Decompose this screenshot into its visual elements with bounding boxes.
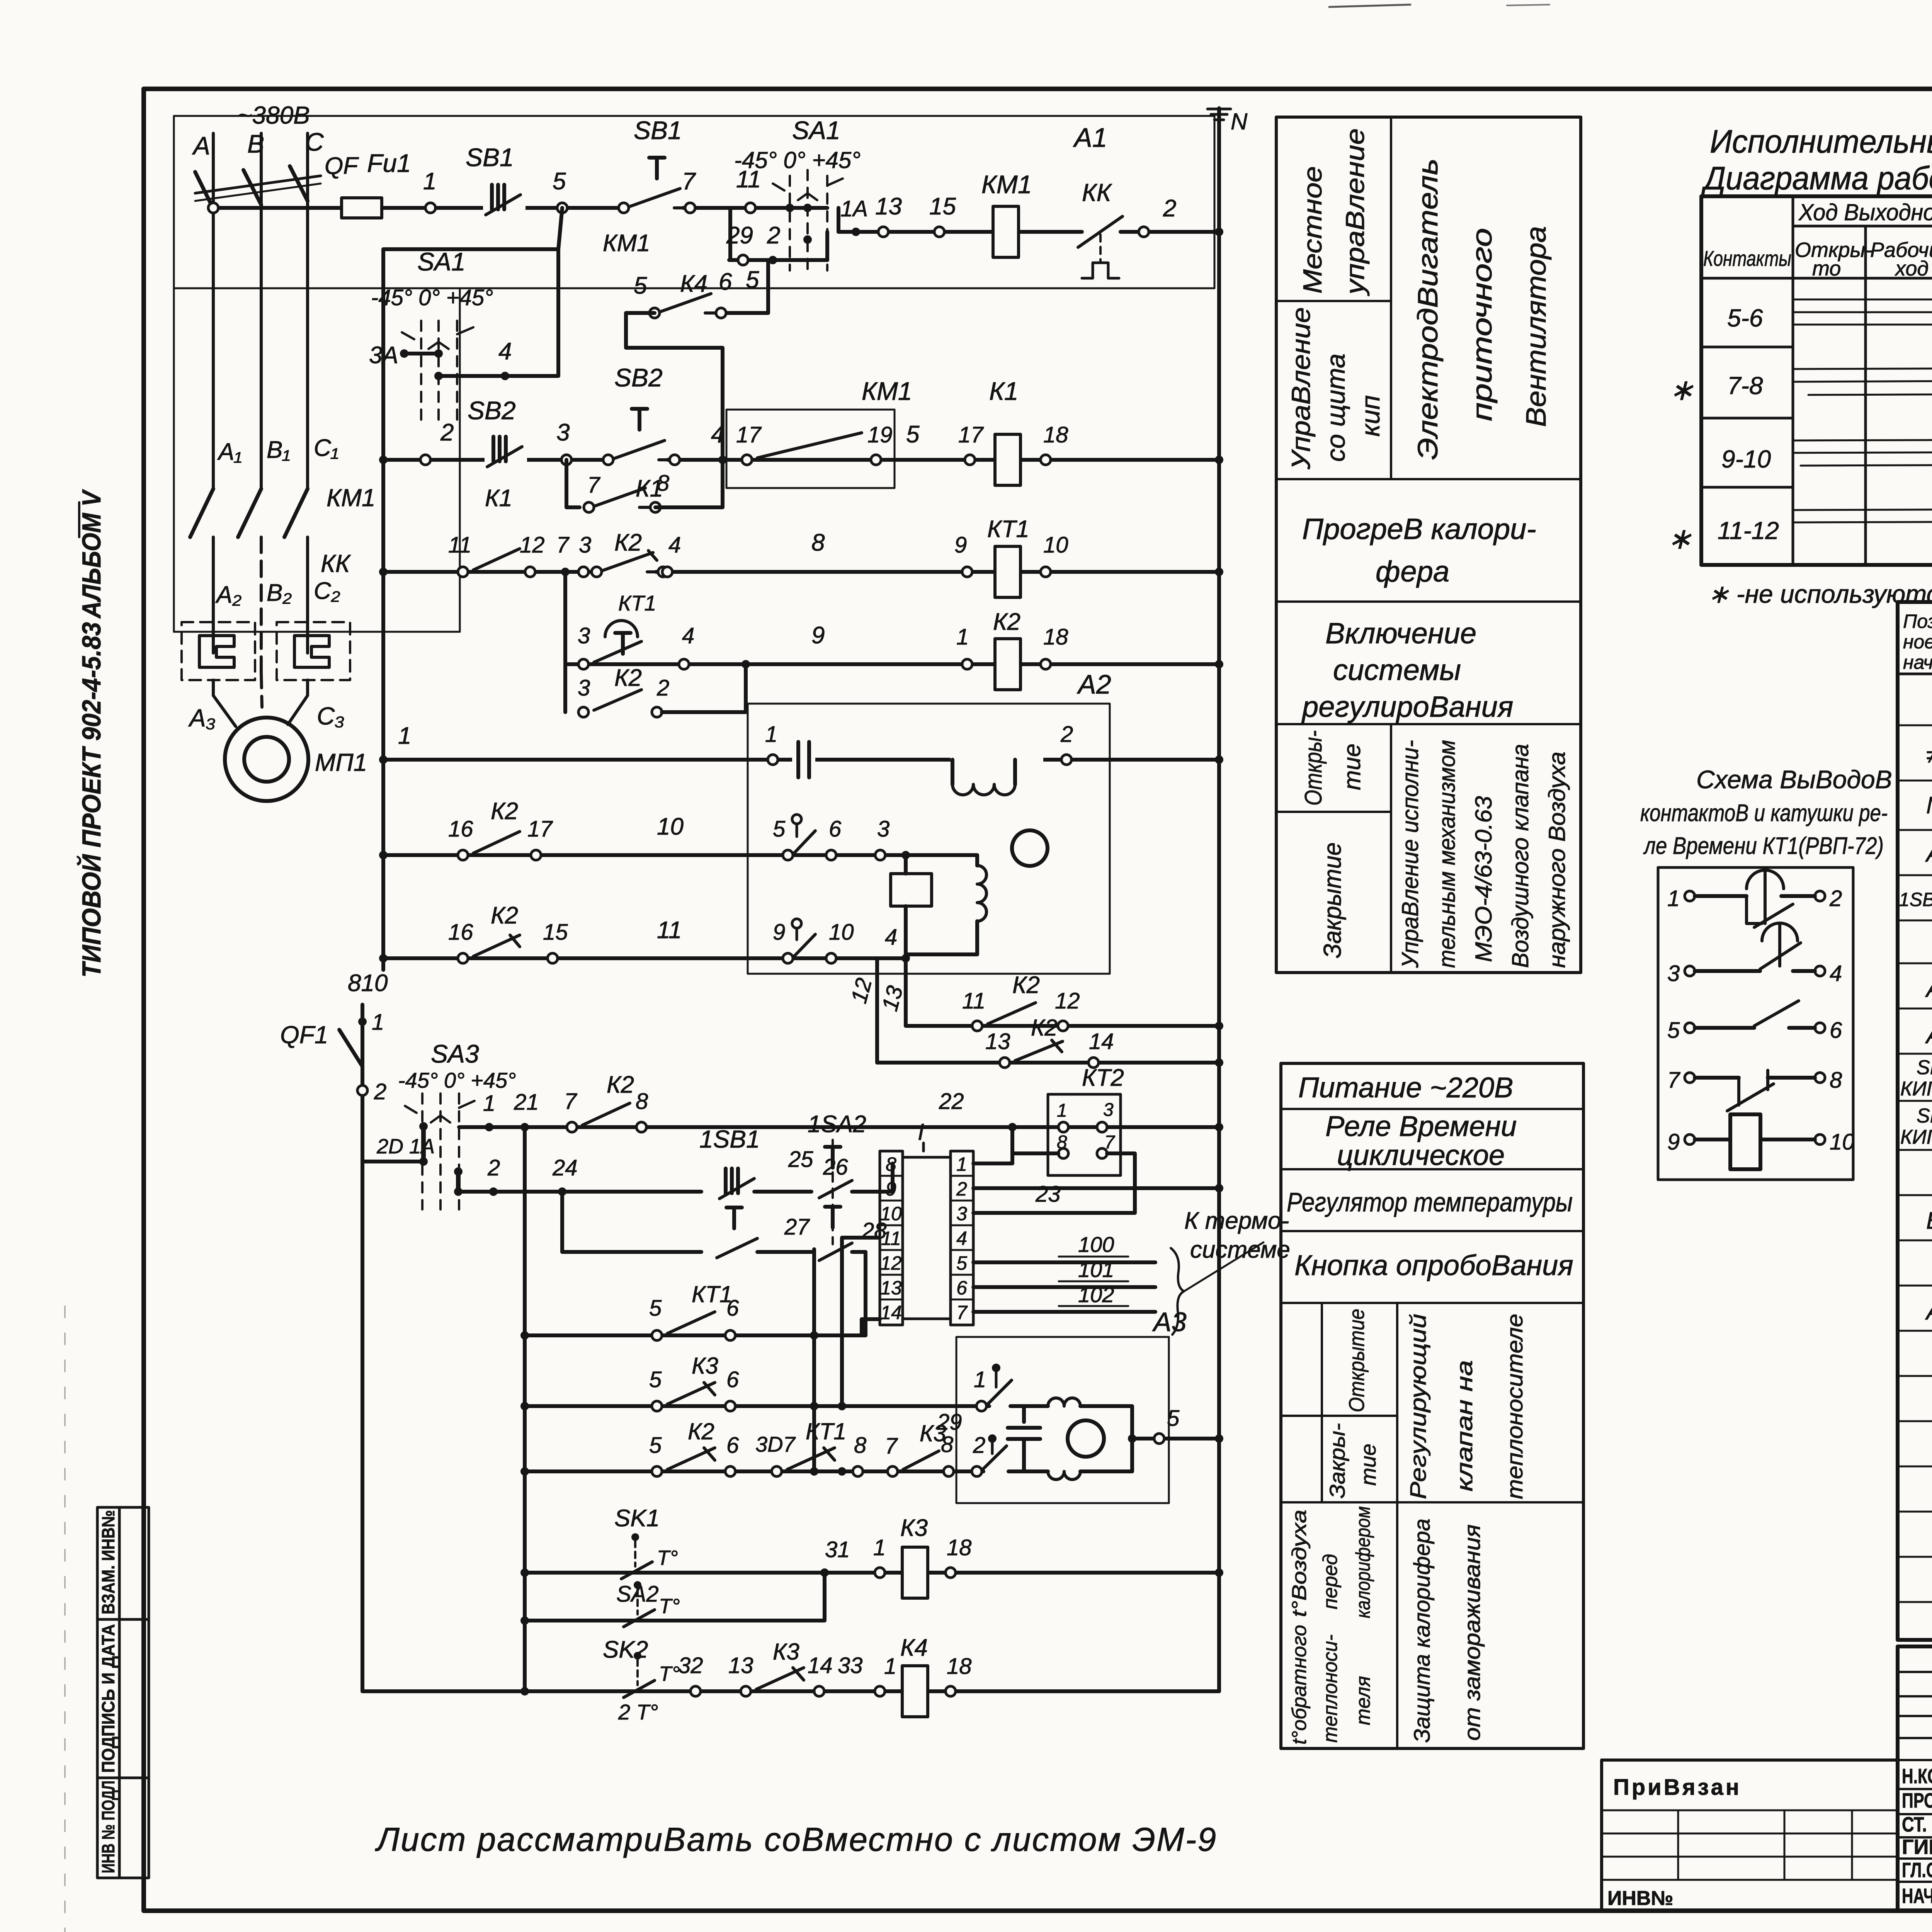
- vertical x2107: [812, 1249, 816, 1471]
- svg-text:SB1: SB1: [634, 116, 682, 145]
- top paper tick marks: [1329, 5, 1410, 7]
- pins 9-10 coil: [1685, 1134, 1695, 1145]
- svg-text:11-12: 11-12: [1718, 517, 1779, 544]
- svg-text:7-8: 7-8: [1727, 372, 1763, 400]
- svg-text:9: 9: [954, 532, 967, 558]
- svg-text:4: 4: [711, 421, 724, 448]
- svg-text:7: 7: [556, 532, 570, 558]
- push button SB2 (NC): [485, 437, 527, 467]
- svg-text:2: 2: [767, 222, 780, 249]
- svg-text:Н.КОНТР.: Н.КОНТР.: [1902, 1765, 1932, 1788]
- svg-text:100: 100: [1078, 1232, 1114, 1257]
- wire rung1b: [838, 230, 1219, 234]
- svg-text:3: 3: [556, 419, 570, 446]
- A3 box: [956, 1337, 1169, 1503]
- svg-text:8: 8: [1057, 1132, 1067, 1153]
- diagram bars: [1793, 299, 1932, 522]
- svg-text:SB2: SB2: [614, 363, 663, 392]
- svg-text:АЛЬБОМ V: АЛЬБОМ V: [77, 489, 106, 619]
- svg-text:14: 14: [880, 1302, 902, 1323]
- svg-text:33: 33: [838, 1653, 863, 1678]
- svg-text:13: 13: [880, 1277, 902, 1299]
- svg-text:12: 12: [520, 532, 545, 558]
- svg-text:5: 5: [1167, 1406, 1180, 1431]
- svg-text:8: 8: [941, 1432, 953, 1457]
- svg-text:QF1: QF1: [280, 1021, 328, 1049]
- motor circle in A3: [1068, 1420, 1104, 1457]
- svg-text:Регулятор температуры: Регулятор температуры: [1287, 1187, 1573, 1217]
- svg-text:начение: начение: [1903, 651, 1932, 673]
- svg-text:6: 6: [719, 269, 732, 295]
- svg-text:МЭО-4/63-0.63: МЭО-4/63-0.63: [1471, 796, 1497, 962]
- svg-text:1SB1: 1SB1: [699, 1125, 760, 1153]
- svg-text:3: 3: [1103, 1100, 1114, 1120]
- svg-text:7: 7: [1667, 1068, 1681, 1093]
- N terminal: [1217, 108, 1221, 1691]
- phase A line: [212, 133, 215, 489]
- svg-text:ЕК: ЕК: [1926, 1207, 1932, 1234]
- svg-text:1SB0,1SB2: 1SB0,1SB2: [1899, 889, 1932, 910]
- rung F : SK1 31 K3 coil: [525, 1571, 1219, 1575]
- svg-text:1SА2: 1SА2: [808, 1111, 866, 1138]
- svg-text:t°обратного: t°обратного: [1288, 1625, 1311, 1745]
- inductor jog: [951, 755, 1043, 795]
- svg-text:К2: К2: [491, 902, 518, 929]
- svg-text:11: 11: [448, 532, 471, 558]
- svg-text:1: 1: [1667, 886, 1680, 911]
- wire rung3: [383, 570, 1219, 574]
- svg-text:ЭлектродВигатель: ЭлектродВигатель: [1413, 158, 1444, 460]
- svg-text:А₂: А₂: [215, 582, 241, 608]
- svg-text:КМ1: КМ1: [603, 230, 650, 257]
- svg-text:17: 17: [736, 422, 762, 447]
- wire rung1: [213, 206, 827, 210]
- svg-text:ход: ход: [1894, 257, 1929, 280]
- svg-text:9: 9: [1667, 1129, 1680, 1155]
- svg-text:QF: QF: [325, 153, 359, 179]
- svg-text:А₃: А₃: [188, 704, 216, 732]
- svg-text:Т°: Т°: [657, 1546, 678, 1570]
- svg-text:5: 5: [956, 1252, 967, 1274]
- svg-text:ПриВязан: ПриВязан: [1613, 1775, 1742, 1800]
- svg-text:Закры-: Закры-: [1325, 1423, 1349, 1498]
- svg-text:6: 6: [726, 1367, 739, 1392]
- svg-text:13: 13: [985, 1029, 1010, 1054]
- svg-text:3: 3: [956, 1203, 967, 1225]
- coil KT1: [995, 546, 1020, 597]
- svg-text:системы: системы: [1333, 654, 1461, 687]
- svg-text:11: 11: [657, 917, 682, 944]
- rung4 aux K2 3-2: [563, 664, 567, 712]
- wire rung6: [383, 853, 906, 857]
- svg-text:Защита калорифера: Защита калорифера: [1410, 1519, 1435, 1743]
- svg-text:УпраВление исполни-: УпраВление исполни-: [1397, 740, 1423, 968]
- svg-text:4: 4: [668, 532, 681, 558]
- svg-text:упраВление: упраВление: [1340, 128, 1370, 296]
- svg-text:приточного: приточного: [1467, 228, 1498, 421]
- node 1A: [852, 228, 860, 236]
- svg-text:5: 5: [906, 421, 920, 448]
- node 2: [1061, 755, 1071, 765]
- svg-text:А₁: А₁: [217, 439, 242, 465]
- svg-text:КМ1: КМ1: [862, 377, 912, 405]
- exit 5: [1128, 1434, 1136, 1443]
- svg-text:SB1: SB1: [466, 143, 514, 172]
- brace to thermosystem: [1171, 1248, 1184, 1335]
- coil K4: [902, 1666, 928, 1717]
- binding box (Привязан): [1602, 1760, 1898, 1911]
- svg-text:К3: К3: [900, 1515, 928, 1541]
- svg-text:К2: К2: [688, 1418, 714, 1444]
- svg-text:10: 10: [1043, 532, 1068, 558]
- svg-text:С₁: С₁: [314, 435, 338, 461]
- KT2 box: [1048, 1094, 1121, 1175]
- svg-text:5: 5: [649, 1367, 662, 1392]
- svg-text:12: 12: [880, 1252, 902, 1274]
- svg-text:Диаграмма работы контактоВ: Диаграмма работы контактоВ: [1701, 160, 1932, 196]
- svg-text:ПрогреВ калори-: ПрогреВ калори-: [1302, 513, 1536, 546]
- svg-text:КИПпоз. 6: КИПпоз. 6: [1900, 1078, 1932, 1100]
- phase lines below KM1: [212, 537, 215, 653]
- pins 5-6 NO contact: [1685, 1023, 1695, 1033]
- coil KM1: [993, 206, 1019, 257]
- svg-text:3: 3: [877, 816, 889, 842]
- svg-text:К2: К2: [1031, 1015, 1058, 1041]
- svg-text:2: 2: [374, 1079, 386, 1104]
- svg-text:8: 8: [811, 529, 825, 556]
- branch K4 5-6 contact: [723, 260, 768, 313]
- svg-text:А1: А1: [1073, 122, 1107, 153]
- svg-text:СТ. ИНЖ: СТ. ИНЖ: [1902, 1813, 1932, 1836]
- svg-text:Регулирующий: Регулирующий: [1406, 1314, 1431, 1499]
- svg-text:тие: тие: [1356, 1444, 1380, 1486]
- svg-text:Контакты: Контакты: [1703, 246, 1791, 270]
- rung 11-K2-12: [906, 1024, 1219, 1028]
- svg-text:А4: А4: [1925, 1298, 1932, 1325]
- faint fold line: [65, 1306, 66, 1932]
- svg-text:SK2: SK2: [1917, 1105, 1932, 1127]
- capacitor in A3: [1010, 1406, 1024, 1422]
- svg-text:1: 1: [423, 168, 436, 195]
- svg-text:12: 12: [846, 975, 877, 1006]
- svg-text:27: 27: [784, 1214, 810, 1240]
- svg-text:К2: К2: [607, 1071, 634, 1098]
- svg-text:N: N: [1231, 109, 1248, 134]
- phase C line: [306, 133, 309, 489]
- svg-text:4: 4: [682, 623, 694, 648]
- svg-text:SA1: SA1: [792, 116, 840, 145]
- svg-text:Открытие: Открытие: [1344, 1309, 1369, 1412]
- svg-text:18: 18: [947, 1654, 972, 1679]
- contact SB2 make: [603, 440, 680, 465]
- svg-text:11: 11: [881, 1228, 901, 1249]
- svg-text:21: 21: [514, 1090, 539, 1115]
- svg-text:Исполнительный механизм А2: Исполнительный механизм А2: [1710, 123, 1932, 160]
- svg-text:КК: КК: [321, 549, 351, 577]
- node 2: [420, 455, 430, 465]
- A1 cabinet outline: [174, 116, 1214, 632]
- svg-text:Реле Времени: Реле Времени: [1325, 1110, 1517, 1142]
- svg-text:циклическое: циклическое: [1337, 1139, 1505, 1171]
- wire rung7: [383, 954, 906, 970]
- parts rows: [1899, 742, 1932, 1325]
- svg-text:-45° 0° +45°: -45° 0° +45°: [371, 285, 493, 310]
- phase B line: [260, 133, 263, 489]
- node 5: [557, 203, 567, 213]
- svg-text:2: 2: [440, 419, 454, 446]
- svg-text:Позицион-: Позицион-: [1903, 611, 1932, 632]
- svg-text:13: 13: [877, 983, 908, 1014]
- svg-text:1: 1: [1057, 1100, 1067, 1121]
- svg-text:Ход Выходного Вала: Ход Выходного Вала: [1798, 199, 1932, 225]
- pins 1-2 delayed NC contact: [1685, 891, 1695, 901]
- node 11: [745, 203, 755, 213]
- rung H : SK2 32 13 K3 14 33 K4 coil: [361, 1162, 364, 1691]
- svg-text:15: 15: [929, 193, 956, 220]
- svg-text:К2: К2: [614, 529, 642, 556]
- svg-text:1: 1: [483, 1091, 495, 1116]
- svg-text:КТ1: КТ1: [806, 1418, 846, 1444]
- svg-text:КТ1: КТ1: [987, 516, 1029, 543]
- svg-text:ВЗАМ. ИНВ№: ВЗАМ. ИНВ№: [98, 1510, 118, 1614]
- rung G : SA2 second sensor: [525, 1619, 825, 1622]
- svg-text:1А: 1А: [840, 196, 868, 221]
- svg-text:Схема ВыВодоВ: Схема ВыВодоВ: [1696, 765, 1892, 794]
- svg-text:7: 7: [564, 1089, 578, 1114]
- svg-text:t°Воздуха: t°Воздуха: [1288, 1510, 1311, 1617]
- fuse Fu1: [342, 198, 382, 218]
- svg-text:15: 15: [543, 920, 568, 945]
- contact K2 NC: [592, 551, 668, 577]
- svg-text:≠П: ≠П: [1926, 742, 1932, 769]
- svg-text:КТ2: КТ2: [1082, 1065, 1124, 1091]
- KM1 main contacts: [190, 489, 213, 537]
- svg-text:Т°: Т°: [659, 1595, 680, 1618]
- svg-text:контактоВ и катушки ре-: контактоВ и катушки ре-: [1640, 800, 1888, 827]
- svg-text:17: 17: [527, 816, 553, 842]
- left control bus: [381, 249, 385, 970]
- push button SB1 cap: [649, 158, 665, 179]
- svg-text:Питание ~220В: Питание ~220В: [1298, 1071, 1513, 1104]
- node 15: [934, 227, 944, 237]
- svg-text:10: 10: [657, 813, 684, 840]
- svg-text:А1: А1: [1925, 840, 1932, 867]
- svg-text:SA3: SA3: [431, 1039, 479, 1068]
- left stamp column boxes: [97, 1507, 149, 1878]
- svg-text:кип: кип: [1356, 395, 1385, 437]
- svg-text:К2: К2: [1012, 972, 1040, 998]
- svg-text:6: 6: [1830, 1018, 1842, 1043]
- contact KT1 delayed: [605, 621, 638, 637]
- push 1SB1 NC: [717, 1168, 759, 1199]
- svg-text:А2: А2: [1925, 976, 1932, 1002]
- capacitor: [792, 742, 815, 777]
- svg-text:от замораживания: от замораживания: [1460, 1524, 1485, 1741]
- svg-text:1: 1: [398, 723, 411, 749]
- A2 box: [748, 704, 1110, 974]
- svg-text:6: 6: [829, 816, 842, 842]
- svg-text:10: 10: [880, 1203, 902, 1225]
- switch SA1 dashed columns: [790, 170, 827, 270]
- node 1: [768, 755, 778, 765]
- breaker QF1: [358, 1017, 367, 1026]
- sensor SK1: [621, 1533, 652, 1579]
- wire to pin8: [1008, 1123, 1017, 1131]
- bottom inductor: [1024, 1469, 1048, 1473]
- svg-text:то: то: [1812, 257, 1841, 280]
- svg-text:С₂: С₂: [314, 578, 340, 604]
- leads into motor: [213, 680, 236, 726]
- svg-text:перед: перед: [1319, 1554, 1342, 1609]
- svg-text:ТИПОВОЙ ПРОЕКТ 902-4-5.83: ТИПОВОЙ ПРОЕКТ 902-4-5.83: [76, 622, 106, 978]
- svg-text:Местное: Местное: [1298, 166, 1327, 294]
- svg-text:SK1: SK1: [1917, 1056, 1932, 1079]
- svg-text:17: 17: [958, 422, 984, 447]
- svg-text:МП: МП: [1926, 792, 1932, 819]
- svg-text:ное обоз-: ное обоз-: [1903, 631, 1932, 653]
- wire pin7 to 23: [1107, 1153, 1135, 1213]
- svg-text:13: 13: [875, 193, 902, 220]
- svg-text:8: 8: [886, 1153, 896, 1175]
- svg-text:16: 16: [448, 920, 473, 945]
- signature rows: [1902, 1765, 1932, 1908]
- svg-text:Лист рассматриВать соВместно с: Лист рассматриВать соВместно с листом ЭМ…: [375, 1821, 1217, 1858]
- svg-text:32: 32: [678, 1653, 703, 1678]
- svg-text:26: 26: [823, 1155, 848, 1180]
- rung 13-K2-14: [877, 1061, 1219, 1065]
- svg-text:2: 2: [1829, 886, 1842, 911]
- svg-text:5: 5: [649, 1296, 662, 1321]
- svg-text:8: 8: [1830, 1068, 1842, 1093]
- svg-text:7: 7: [1104, 1132, 1116, 1153]
- svg-text:1: 1: [884, 1654, 896, 1679]
- svg-text:ПРОВЕР.: ПРОВЕР.: [1902, 1789, 1932, 1812]
- svg-text:Закрытие: Закрытие: [1318, 842, 1346, 958]
- svg-text:теплоноси-: теплоноси-: [1319, 1634, 1342, 1743]
- svg-text:29: 29: [726, 222, 753, 249]
- svg-text:ГИП: ГИП: [1902, 1835, 1932, 1859]
- svg-text:3D7: 3D7: [755, 1432, 796, 1456]
- svg-text:∗: ∗: [1667, 522, 1692, 555]
- svg-text:фера: фера: [1376, 555, 1449, 588]
- svg-text:9: 9: [773, 920, 785, 945]
- svg-text:К4: К4: [900, 1634, 928, 1661]
- node 17: [965, 455, 975, 465]
- svg-text:14: 14: [1089, 1029, 1114, 1054]
- svg-text:1: 1: [372, 1010, 384, 1035]
- rung B : 2 24 1SB1 25 1SA2 26: [458, 1190, 701, 1194]
- svg-text:13: 13: [728, 1653, 753, 1678]
- svg-text:Кнопка опробоВания: Кнопка опробоВания: [1294, 1249, 1573, 1281]
- svg-text:7: 7: [885, 1434, 898, 1459]
- svg-text:14: 14: [808, 1653, 833, 1678]
- svg-text:1: 1: [974, 1367, 986, 1392]
- svg-text:5-6: 5-6: [1727, 304, 1763, 332]
- svg-text:-45° 0° +45°: -45° 0° +45°: [734, 147, 861, 173]
- svg-text:2D 1А: 2D 1А: [376, 1135, 435, 1158]
- svg-text:К4: К4: [680, 270, 707, 297]
- svg-text:8: 8: [636, 1089, 648, 1114]
- svg-text:УпраВление: УпраВление: [1286, 307, 1316, 470]
- svg-text:1: 1: [956, 624, 969, 650]
- svg-text:9: 9: [886, 1178, 896, 1200]
- rung2 aux K1 7-8: [566, 460, 580, 507]
- svg-text:9-10: 9-10: [1721, 445, 1771, 473]
- contact KM1 17-19: [742, 455, 752, 465]
- top inductor: [1024, 1404, 1048, 1408]
- svg-text:А2: А2: [1077, 669, 1111, 699]
- push button SB1 (NC): [483, 185, 526, 215]
- svg-text:6: 6: [726, 1296, 739, 1321]
- contact KM1 aux: [619, 189, 695, 213]
- coil K1: [995, 434, 1020, 485]
- svg-text:3: 3: [578, 675, 590, 701]
- svg-text:16: 16: [448, 816, 473, 842]
- svg-text:С₃: С₃: [317, 702, 345, 730]
- svg-text:5: 5: [773, 816, 786, 842]
- switch 5-6 in A2: [783, 850, 793, 860]
- verticals 12 / 13 below A2: [875, 958, 879, 1063]
- svg-text:4: 4: [498, 338, 512, 365]
- svg-text:2 Т°: 2 Т°: [618, 1700, 658, 1724]
- svg-text:102: 102: [1078, 1282, 1114, 1307]
- svg-text:2: 2: [656, 675, 669, 701]
- svg-text:SK1: SK1: [614, 1505, 660, 1532]
- svg-text:В₂: В₂: [267, 580, 292, 606]
- svg-text:КМ1: КМ1: [327, 484, 376, 512]
- svg-text:∗: ∗: [1669, 374, 1694, 406]
- svg-text:8: 8: [657, 471, 669, 496]
- svg-text:Откры-: Откры-: [1300, 730, 1327, 806]
- svg-text:19: 19: [867, 422, 893, 447]
- KK heater box phase C (dashed): [277, 622, 350, 680]
- node 3: [561, 455, 571, 465]
- coil K2: [995, 639, 1020, 690]
- A1 inner box: [726, 410, 895, 488]
- svg-text:системе: системе: [1190, 1236, 1290, 1263]
- svg-text:6: 6: [726, 1433, 739, 1458]
- svg-text:12: 12: [1055, 988, 1080, 1014]
- svg-text:КМ1: КМ1: [981, 170, 1032, 199]
- svg-text:регулироВания: регулироВания: [1301, 690, 1513, 723]
- svg-text:5: 5: [634, 272, 647, 299]
- svg-text:SB2: SB2: [468, 396, 516, 425]
- 1SA2 dashed: [832, 1140, 834, 1244]
- vertical inductor: [906, 855, 977, 866]
- svg-text:101: 101: [1078, 1257, 1114, 1282]
- svg-text:К3: К3: [692, 1353, 718, 1379]
- svg-text:тельным механизмом: тельным механизмом: [1434, 740, 1460, 968]
- terminal wires right: [973, 1153, 1012, 1163]
- svg-text:6: 6: [956, 1277, 967, 1299]
- svg-text:4: 4: [885, 925, 897, 950]
- svg-text:А3: А3: [1152, 1307, 1187, 1337]
- svg-text:наружного Воздуха: наружного Воздуха: [1544, 752, 1570, 968]
- pins 3-4 delayed NO contact: [1685, 966, 1695, 976]
- terminal wires left: [842, 1238, 880, 1406]
- svg-text:Т°: Т°: [659, 1662, 680, 1685]
- svg-text:Fu1: Fu1: [367, 149, 411, 177]
- motor circle in A2: [1012, 830, 1048, 866]
- contact 11-12: [458, 567, 468, 577]
- wire rung2: [383, 458, 1219, 462]
- svg-text:2: 2: [956, 1178, 967, 1200]
- svg-text:31: 31: [825, 1537, 850, 1562]
- KK heater box phase A (dashed): [182, 622, 255, 680]
- node 2: [1139, 227, 1149, 237]
- svg-text:ИНВ№: ИНВ№: [1607, 1887, 1673, 1910]
- svg-text:3: 3: [1667, 961, 1680, 986]
